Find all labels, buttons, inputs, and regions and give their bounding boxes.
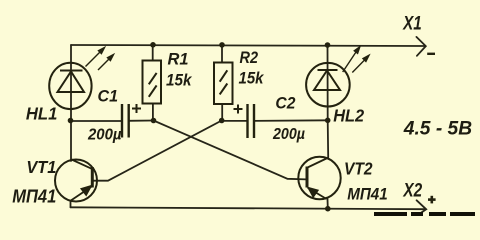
minus sign at X1 <box>427 53 435 55</box>
HL1 light arrow 1 <box>86 48 105 67</box>
wire HL2 branch vertical <box>327 45 329 120</box>
transistor VT2 <box>298 157 340 199</box>
capacitor C1 <box>122 104 129 138</box>
HL2 light arrow 1 <box>343 47 360 72</box>
svg-text:R2: R2 <box>240 48 259 67</box>
resistor R1 <box>143 61 162 104</box>
junction node R1 top <box>150 42 156 48</box>
junction node at HL1/VT1/C1 <box>68 118 74 124</box>
svg-text:200µ: 200µ <box>87 126 122 143</box>
svg-text:X2: X2 <box>403 181 423 202</box>
HL1 light arrow 2 <box>98 55 114 71</box>
LED HL2 <box>306 63 350 107</box>
wire node to C1 left plate <box>71 120 122 122</box>
wire R1 bottom lead <box>152 104 154 121</box>
watermark bar bottom right <box>374 212 475 216</box>
transistor VT1 <box>55 160 97 202</box>
svg-text:VT2: VT2 <box>344 159 373 179</box>
wire bottom rail <box>71 207 425 209</box>
wire left vertical HL1 branch <box>70 45 72 121</box>
C2 polarity plus <box>234 105 243 114</box>
HL2 light arrow 2 <box>352 55 369 72</box>
svg-text:HL2: HL2 <box>333 106 364 126</box>
svg-text:C1: C1 <box>98 87 119 106</box>
wire VT2 collector lead <box>327 120 330 157</box>
junction node HL2/VT2 collector <box>325 118 331 124</box>
plus sign at X2 <box>428 196 436 204</box>
svg-text:15k: 15k <box>166 70 193 89</box>
svg-text:VT1: VT1 <box>26 157 56 177</box>
wire cross-coupling diagonal R1 node to VT2 base <box>154 121 307 180</box>
junction node VT2 emitter / bottom rail <box>325 206 331 212</box>
svg-text:X1: X1 <box>402 14 421 35</box>
wire cross-coupling diagonal R2 node to VT1 base <box>93 121 222 181</box>
C1 polarity plus <box>132 104 141 113</box>
wire C2 right plate to HL2 node <box>254 119 328 122</box>
wire VT2 emitter lead <box>327 199 329 209</box>
wire R2 bottom lead <box>221 104 223 121</box>
junction node HL2 top <box>325 42 331 48</box>
wire VT1 emitter lead <box>70 202 72 208</box>
svg-text:HL1: HL1 <box>26 103 58 123</box>
svg-text:15k: 15k <box>239 69 265 88</box>
wire VT1 collector lead <box>70 121 72 162</box>
wire R2 top lead <box>221 45 223 63</box>
wire top rail <box>71 45 425 46</box>
junction node R2 top <box>219 42 225 48</box>
LED HL1 <box>49 63 91 109</box>
svg-text:C2: C2 <box>275 93 295 112</box>
wire C1 right plate to node <box>129 120 154 122</box>
svg-text:R1: R1 <box>168 50 189 69</box>
resistor R2 <box>214 63 233 105</box>
terminal X2 arrow <box>417 200 427 215</box>
svg-text:МП41: МП41 <box>347 185 388 204</box>
svg-text:200µ: 200µ <box>272 126 305 143</box>
svg-text:4.5 - 5В: 4.5 - 5В <box>403 119 473 140</box>
svg-text:МП41: МП41 <box>12 187 56 207</box>
terminal X1 arrow <box>416 37 425 56</box>
wire R1 top lead <box>152 45 154 61</box>
wire node to C2 left plate <box>222 120 248 122</box>
junction node R2/C2/VT1-base <box>219 118 225 124</box>
capacitor C2 <box>248 104 255 138</box>
junction node R1/C1/VT2-base <box>151 118 157 124</box>
